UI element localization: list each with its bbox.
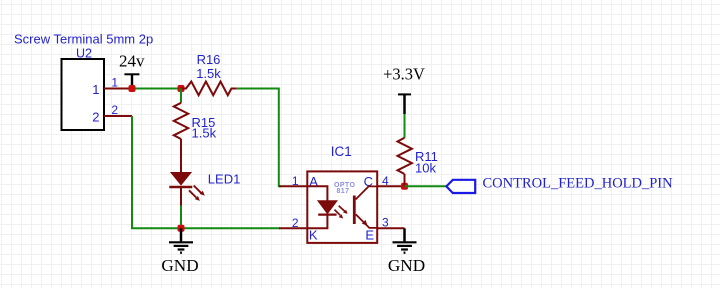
wire: R15 to LED1 — [180, 139, 182, 173]
svg-text:817: 817 — [337, 188, 350, 195]
IC1 pin 4 — [377, 185, 404, 187]
svg-text:24v: 24v — [119, 52, 145, 71]
svg-text:Screw Terminal 5mm 2p: Screw Terminal 5mm 2p — [14, 31, 153, 46]
IC1 emitter arrowhead — [362, 220, 368, 226]
junction at R15/R16 node — [178, 85, 185, 92]
svg-text:1: 1 — [292, 174, 299, 188]
IC1 internal LED triangle — [318, 201, 337, 214]
IC1 phototransistor collector — [356, 186, 378, 199]
resistor R16 — [181, 82, 237, 96]
IC1 pin 1 — [279, 185, 307, 187]
svg-text:GND: GND — [388, 256, 425, 275]
IC1 pin 2 — [279, 227, 307, 229]
junction at IC1 pin4/R11 — [401, 183, 408, 190]
svg-text:1: 1 — [92, 82, 99, 97]
LED1 cathode bar — [169, 186, 192, 188]
junction at 24v pin — [129, 85, 136, 92]
IC1 internal LED cathode bar — [318, 214, 336, 216]
IC1 internal LED anode lead — [307, 186, 327, 201]
wire: node to port — [405, 185, 448, 187]
svg-text:2: 2 — [111, 103, 118, 117]
svg-text:3: 3 — [382, 216, 389, 230]
IC1 internal emission arrow 1 — [339, 206, 348, 214]
wire: 24v to R16/R15 node — [132, 88, 181, 90]
optocoupler IC1 body — [307, 171, 377, 243]
IC1 internal LED cathode lead — [307, 215, 327, 229]
IC1 type text OPTO 817 — [334, 182, 355, 195]
power port GND (left) — [161, 228, 198, 275]
IC1 phototransistor base bar — [353, 196, 356, 225]
svg-text:E: E — [365, 228, 374, 243]
wire: node to R15 — [180, 89, 182, 103]
power port 24v — [119, 52, 145, 89]
svg-text:10k: 10k — [415, 161, 436, 176]
U2 pin 2 — [104, 115, 132, 117]
screw terminal U2 body — [62, 59, 105, 130]
svg-text:GND: GND — [161, 256, 198, 275]
IC1 pin 3 — [377, 227, 404, 229]
svg-text:1.5k: 1.5k — [196, 66, 221, 81]
IC1 phototransistor emitter — [356, 214, 378, 228]
wire: gnd rail to IC1 pin2 — [131, 227, 280, 229]
svg-text:4: 4 — [382, 174, 389, 188]
svg-text:1.5k: 1.5k — [192, 125, 217, 140]
resistor R15 — [174, 103, 188, 139]
svg-text:+3.3V: +3.3V — [383, 65, 425, 84]
wire: LED1 to gnd rail — [180, 206, 182, 229]
LED1 cathode lead — [180, 187, 182, 206]
wire: +3.3V to R11 — [404, 114, 406, 138]
LED1 emission arrow 2 — [189, 190, 200, 201]
IC1 internal emission arrow 2 — [335, 210, 344, 219]
LED1 emission arrow 1 — [194, 186, 205, 196]
svg-text:K: K — [309, 228, 318, 243]
svg-text:IC1: IC1 — [331, 144, 352, 159]
svg-text:2: 2 — [92, 109, 99, 124]
LED1 diode triangle — [171, 173, 191, 185]
resistor R11 — [398, 138, 412, 174]
wire: R16 to IC1 pin1 — [237, 89, 281, 187]
power port +3.3V — [383, 65, 425, 115]
power port GND (right) — [388, 228, 425, 275]
svg-text:LED1: LED1 — [208, 171, 241, 186]
svg-text:CONTROL_FEED_HOLD_PIN: CONTROL_FEED_HOLD_PIN — [483, 175, 674, 191]
wire: U2 pin2 down to gnd rail — [131, 116, 133, 228]
junction at LED1/gnd rail — [178, 225, 185, 232]
port CONTROL_FEED_HOLD_PIN symbol — [446, 180, 475, 193]
svg-text:2: 2 — [292, 216, 299, 230]
U2 pin 1 — [104, 88, 132, 90]
svg-text:1: 1 — [111, 75, 118, 89]
R11 lead to node — [404, 174, 406, 186]
